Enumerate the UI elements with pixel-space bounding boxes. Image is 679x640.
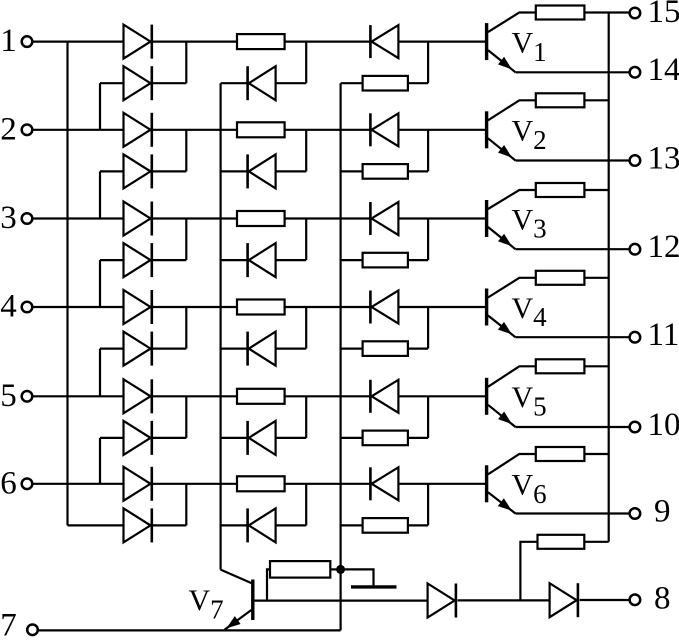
diode D4b (lower) bbox=[124, 332, 152, 366]
wire junction vertical ch6 bbox=[185, 484, 187, 526]
pin 3 terminal bbox=[22, 213, 33, 224]
wire emitter ch3 to pin bbox=[516, 248, 630, 250]
wire base ch3 bbox=[398, 217, 486, 219]
wire node to ground bbox=[344, 569, 374, 585]
wire input ch4 bbox=[33, 306, 124, 308]
wire D7a to junction bbox=[458, 599, 550, 601]
wire base ch1 bbox=[398, 40, 486, 42]
clamp-diode bus (col2) bbox=[220, 83, 222, 569]
wire D3b anode bbox=[100, 260, 124, 307]
wire D3b cathode bbox=[153, 259, 187, 261]
wire emitter ch6 to pin bbox=[516, 512, 630, 514]
transistor V7 bbox=[221, 570, 253, 630]
center bus to ground node bbox=[340, 83, 342, 630]
diode D7a bbox=[428, 584, 456, 618]
pin 10 terminal bbox=[630, 422, 641, 433]
diode D2d (col3) bbox=[370, 113, 398, 146]
svg-text:V1: V1 bbox=[512, 26, 547, 66]
junction node dot bbox=[336, 565, 345, 574]
svg-text:11: 11 bbox=[648, 317, 679, 353]
diode D5b (lower) bbox=[124, 421, 152, 455]
transistor V3 bbox=[487, 190, 536, 249]
wire D3c cathode bbox=[221, 259, 248, 261]
diode D5c (clamp, col2) bbox=[248, 421, 276, 455]
wire R1b left bbox=[341, 82, 363, 84]
resistor R2a bbox=[237, 122, 285, 137]
diode D5a (input) bbox=[124, 379, 152, 413]
resistor R2c (collector) bbox=[536, 93, 585, 107]
pin 2 terminal bbox=[22, 125, 33, 136]
wire ch1 resistor to diode bbox=[285, 40, 371, 42]
wire D1b cathode bbox=[153, 82, 187, 84]
wire emitter ch4 to pin bbox=[516, 336, 630, 338]
transistor V6 bbox=[487, 454, 536, 514]
wire junction vertical ch3 bbox=[185, 219, 187, 261]
wire D4b anode bbox=[100, 349, 124, 397]
pin 5 terminal bbox=[22, 391, 33, 402]
wire ch6 diode to resistor bbox=[153, 483, 237, 485]
wire ch5 diode to resistor bbox=[153, 395, 237, 397]
wire D5c anode bbox=[276, 437, 307, 439]
pin 13 terminal bbox=[630, 155, 641, 166]
svg-text:V4: V4 bbox=[512, 292, 548, 332]
svg-text:6: 6 bbox=[0, 465, 17, 501]
wire R7b right to bus bbox=[584, 541, 608, 543]
wire D2b anode bbox=[100, 171, 124, 218]
wire vertical x306 ch4 bbox=[305, 307, 307, 349]
wire ch6 resistor to diode bbox=[285, 483, 371, 485]
wire D5b anode bbox=[100, 438, 124, 484]
diode D2c (clamp, col2) bbox=[248, 154, 276, 188]
resistor R5b bbox=[363, 431, 408, 446]
diode D1a (input) bbox=[124, 25, 152, 59]
wire R6b right bbox=[408, 484, 428, 526]
svg-text:5: 5 bbox=[0, 378, 17, 414]
wire R1c to pin 15 bbox=[584, 11, 629, 13]
wire R4b left bbox=[341, 348, 363, 350]
resistor R3b bbox=[363, 253, 408, 268]
resistor R1c (collector) bbox=[536, 6, 585, 20]
pin 15 terminal bbox=[630, 8, 641, 19]
wire vertical x306 ch1 bbox=[305, 42, 307, 84]
wire D6b anode to left bus bbox=[68, 524, 124, 526]
resistor R7a (V7 base) bbox=[270, 561, 330, 578]
wire base ch6 bbox=[398, 483, 486, 485]
wire R6c to right bus bbox=[584, 453, 608, 455]
wire R4c to right bus bbox=[584, 277, 608, 279]
diode D6b (lower) bbox=[124, 508, 152, 542]
wire vertical x306 ch2 bbox=[305, 130, 307, 172]
svg-text:V5: V5 bbox=[512, 381, 547, 421]
pin 6 terminal bbox=[22, 479, 33, 490]
diode D3c (clamp, col2) bbox=[248, 243, 276, 277]
wire R4b right bbox=[408, 307, 428, 349]
diode D3d (col3) bbox=[370, 202, 398, 235]
diode D4d (col3) bbox=[370, 291, 398, 324]
resistor R1a bbox=[237, 34, 285, 49]
wire vertical x306 ch3 bbox=[305, 219, 307, 261]
wire ch4 resistor to diode bbox=[285, 306, 371, 308]
wire input ch3 bbox=[33, 217, 124, 219]
diode D2a (input) bbox=[124, 113, 152, 147]
wire emitter ch1 to pin bbox=[516, 71, 630, 73]
wire R7a left to base bbox=[267, 569, 270, 600]
left input bus bbox=[66, 42, 68, 526]
diode D2b (lower) bbox=[124, 154, 152, 188]
diode D1b (lower) bbox=[124, 66, 152, 100]
wire D4c cathode bbox=[221, 348, 248, 350]
svg-text:1: 1 bbox=[0, 23, 17, 59]
wire R7a right to node bbox=[330, 568, 337, 570]
wire emitter ch2 to pin bbox=[516, 159, 630, 161]
diode D3a (input) bbox=[124, 202, 152, 236]
diode D6a (input) bbox=[124, 467, 152, 501]
pin 11 terminal bbox=[630, 332, 641, 343]
diode D1c (clamp, col2) bbox=[248, 66, 276, 100]
diode D6c (clamp, col2) bbox=[248, 508, 276, 542]
pin 14 terminal bbox=[630, 67, 641, 78]
wire input ch2 bbox=[33, 129, 124, 131]
wire R3c to right bus bbox=[584, 189, 608, 191]
wire junction vertical ch1 bbox=[185, 42, 187, 84]
wire D5c cathode bbox=[221, 437, 248, 439]
pin 8 terminal bbox=[630, 595, 641, 606]
svg-text:14: 14 bbox=[648, 52, 679, 88]
wire R5b left bbox=[341, 437, 363, 439]
wire input ch5 bbox=[33, 395, 124, 397]
wire base ch4 bbox=[398, 306, 486, 308]
svg-text:V2: V2 bbox=[512, 115, 547, 155]
resistor R2b bbox=[363, 164, 408, 179]
resistor R7b bbox=[538, 535, 585, 549]
diode D4c (clamp, col2) bbox=[248, 332, 276, 366]
diode D5d (col3) bbox=[370, 380, 398, 413]
diode D4a (input) bbox=[124, 290, 152, 324]
wire D6c anode bbox=[276, 524, 307, 526]
diode D6d (col3) bbox=[370, 467, 398, 500]
resistor R3a bbox=[237, 211, 285, 226]
wire junction vertical ch5 bbox=[185, 396, 187, 438]
ground bbox=[351, 585, 397, 588]
resistor R5a bbox=[237, 389, 285, 404]
wire D7b to pin 8 bbox=[580, 599, 630, 601]
wire D4b cathode bbox=[153, 348, 187, 350]
resistor R4c (collector) bbox=[536, 271, 585, 285]
wire D1b anode bbox=[100, 83, 124, 130]
resistor R5c (collector) bbox=[536, 359, 585, 373]
wire ch4 diode to resistor bbox=[153, 306, 237, 308]
wire vertical x306 ch5 bbox=[305, 396, 307, 438]
wire ch3 diode to resistor bbox=[153, 217, 237, 219]
svg-text:8: 8 bbox=[654, 580, 671, 616]
wire R2b right bbox=[408, 130, 428, 172]
wire input ch6 bbox=[33, 483, 124, 485]
resistor R6b bbox=[363, 518, 408, 533]
wire R3b left bbox=[341, 259, 363, 261]
wire base ch5 bbox=[398, 395, 486, 397]
wire D4c anode bbox=[276, 348, 307, 350]
svg-text:3: 3 bbox=[0, 200, 17, 236]
svg-text:15: 15 bbox=[648, 0, 679, 30]
wire input ch1 bbox=[33, 40, 124, 42]
svg-text:4: 4 bbox=[0, 289, 17, 325]
svg-text:12: 12 bbox=[648, 229, 679, 265]
wire D1c cathode bbox=[221, 82, 248, 84]
resistor R3c (collector) bbox=[536, 183, 585, 197]
wire ch2 diode to resistor bbox=[153, 129, 237, 131]
svg-text:10: 10 bbox=[648, 407, 679, 443]
wire ch2 resistor to diode bbox=[285, 129, 371, 131]
wire D3c anode bbox=[276, 259, 307, 261]
resistor R4b bbox=[363, 341, 408, 356]
wire vertical x306 ch6 bbox=[305, 484, 307, 526]
right common bus bbox=[608, 13, 610, 542]
diode D3b (lower) bbox=[124, 243, 152, 277]
wire D2b cathode bbox=[153, 170, 187, 172]
pin 7 terminal bbox=[27, 625, 38, 636]
transistor V5 bbox=[487, 366, 536, 427]
svg-text:V7: V7 bbox=[189, 584, 224, 624]
resistor R4a bbox=[237, 300, 285, 315]
pin 1 terminal bbox=[22, 36, 33, 47]
wire emitter ch5 to pin bbox=[516, 426, 630, 428]
wire R6b left bbox=[341, 524, 363, 526]
svg-text:9: 9 bbox=[654, 493, 671, 529]
wire R1b right bbox=[408, 42, 428, 84]
wire D5b cathode bbox=[153, 437, 187, 439]
wire R2b left bbox=[341, 170, 363, 172]
resistor R6c (collector) bbox=[536, 447, 585, 461]
wire D1c anode bbox=[276, 82, 307, 84]
wire junction vertical ch2 bbox=[185, 130, 187, 172]
wire ch1 diode to resistor bbox=[153, 40, 237, 42]
pin 12 terminal bbox=[630, 244, 641, 255]
wire D6c cathode bbox=[221, 524, 248, 526]
diode D1d (col3) bbox=[370, 25, 398, 58]
wire V7 base line bbox=[255, 599, 428, 601]
wire base ch2 bbox=[398, 129, 486, 131]
wire R2c to right bus bbox=[584, 99, 608, 101]
resistor R6a bbox=[237, 476, 285, 491]
svg-text:2: 2 bbox=[0, 111, 17, 147]
transistor V2 bbox=[487, 100, 536, 160]
resistor R1b bbox=[363, 76, 408, 91]
wire junction vertical ch4 bbox=[185, 307, 187, 349]
wire D2c anode bbox=[276, 170, 307, 172]
transistor V4 bbox=[487, 278, 536, 337]
wire D6b cathode bbox=[153, 524, 187, 526]
wire ch5 resistor to diode bbox=[285, 395, 371, 397]
svg-text:13: 13 bbox=[648, 140, 679, 176]
pin 4 terminal bbox=[22, 302, 33, 313]
transistor V1 bbox=[487, 13, 536, 73]
wire R5c to right bus bbox=[584, 365, 608, 367]
svg-text:7: 7 bbox=[0, 608, 17, 640]
wire pin 7 / emitter line bbox=[38, 629, 340, 631]
diode D7b bbox=[550, 583, 578, 617]
pin 9 terminal bbox=[630, 508, 641, 519]
wire ch3 resistor to diode bbox=[285, 217, 371, 219]
svg-text:V3: V3 bbox=[512, 203, 547, 243]
wire D2c cathode bbox=[221, 170, 248, 172]
svg-text:V6: V6 bbox=[512, 469, 547, 509]
wire R5b right bbox=[408, 396, 428, 438]
wire R7b left leg bbox=[520, 542, 537, 601]
wire R3b right bbox=[408, 219, 428, 261]
